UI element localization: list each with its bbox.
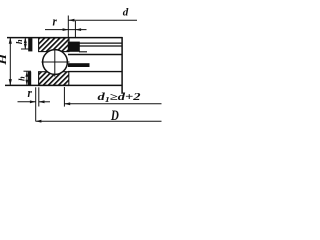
shaft line L2 — [79, 42, 123, 44]
svg-text:D: D — [110, 107, 119, 123]
d dimension line — [68, 19, 137, 22]
housing shoulder bar upper — [28, 38, 32, 51]
svg-text:d: d — [123, 7, 129, 19]
shaft shoulder bar lower — [28, 72, 31, 86]
extension line V2 (d1) — [63, 87, 65, 107]
bottom long line (shaft surface) — [5, 84, 123, 86]
line L4 — [68, 54, 123, 56]
ball center line horizontal — [42, 61, 70, 63]
ball center line vertical — [54, 48, 56, 77]
line L5 — [68, 71, 123, 73]
shaft line L3 — [79, 45, 123, 47]
ball — [43, 50, 68, 75]
svg-text:H: H — [0, 53, 9, 66]
lower h dimension — [24, 71, 32, 86]
right end line — [121, 37, 123, 94]
svg-text:r: r — [28, 85, 33, 100]
inner ring lower section (hatched) — [39, 72, 69, 86]
D dimension line — [36, 120, 162, 123]
outer ring upper section (hatched) — [39, 38, 69, 52]
upper h dimension — [21, 37, 30, 49]
d1 dimension line — [64, 102, 161, 105]
extension line V1a (r left / D) — [35, 87, 37, 121]
outer ring right solid section — [68, 42, 80, 52]
short stub line — [79, 51, 87, 53]
H dimension line — [9, 37, 12, 85]
svg-text:r: r — [53, 14, 58, 29]
extension line V1b (r right) — [38, 87, 40, 106]
bottom r dimension — [18, 100, 51, 103]
washer band right of ball — [68, 63, 90, 67]
top line (housing bore) — [7, 37, 123, 39]
svg-text:d1≥d+2: d1≥d+2 — [98, 92, 141, 104]
svg-text:h: h — [14, 39, 24, 44]
extension line A for d and r — [67, 16, 69, 38]
extension line B for r — [74, 21, 76, 38]
top r dimension — [45, 28, 87, 31]
svg-text:h: h — [16, 76, 26, 81]
